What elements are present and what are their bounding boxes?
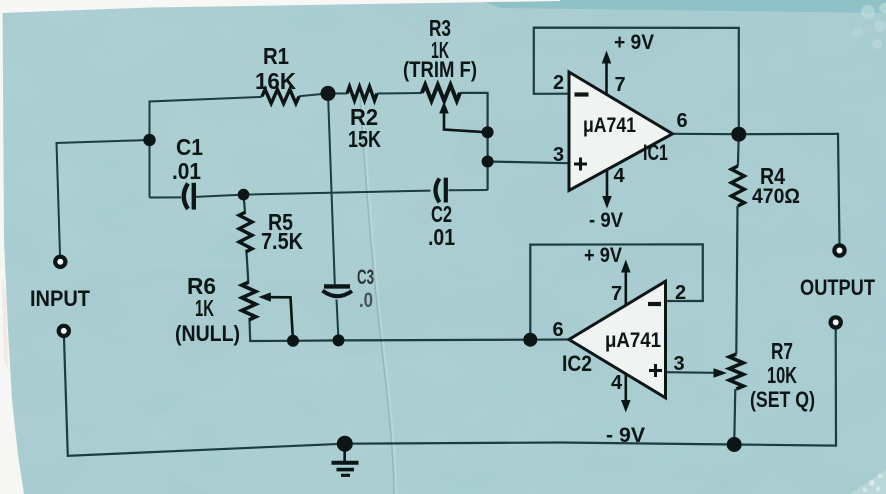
svg-text:(NULL): (NULL) (175, 321, 240, 346)
IC1 plus sign (574, 158, 587, 171)
IC2 -9V supply arrow pin 4 (624, 374, 627, 401)
node junction IC1 output (731, 127, 746, 142)
pink tinge left edge (2, 275, 8, 370)
wire: R3 right corner down to C2 (460, 93, 488, 190)
R3 wiper arrow (444, 111, 488, 132)
node junction R1-R2 (321, 86, 336, 101)
R7 wiper arrow from IC2 pin3 (714, 368, 728, 378)
node junction IC2 feedback (523, 333, 537, 347)
svg-text:.01: .01 (172, 158, 201, 184)
op-amp U2 IC2 triangle (569, 281, 666, 398)
wire: R5 R6 chain vertical (244, 195, 246, 212)
wire: input stub from node A (57, 140, 150, 255)
top right corner streaks (853, 3, 886, 49)
svg-text:4: 4 (614, 165, 626, 187)
svg-text:- 9V: - 9V (589, 209, 623, 232)
darker band top right (480, 0, 886, 13)
wire: C1 row (150, 196, 182, 198)
potentiometer R7 (729, 354, 743, 389)
capacitor C1 (184, 184, 188, 210)
bottom right white corner (850, 470, 886, 494)
svg-text:1K: 1K (195, 295, 214, 321)
node junction input-C1 (143, 134, 155, 146)
wire: R4-R7 vertical chain (737, 134, 740, 166)
resistor R1 (262, 89, 299, 103)
output terminal upper (834, 245, 844, 255)
svg-text:R1: R1 (263, 43, 289, 69)
svg-text:C1: C1 (176, 134, 203, 160)
svg-text:.01: .01 (428, 224, 455, 250)
svg-text:2: 2 (675, 282, 686, 304)
wire: top left horizontal + left vertical (150, 97, 263, 198)
IC2 plus sign (649, 364, 662, 377)
output terminal lower (831, 317, 841, 327)
input terminal lower (59, 326, 69, 336)
svg-text:10K: 10K (767, 362, 797, 388)
node junction C3 bottom (333, 334, 345, 346)
resistor R2 (347, 87, 377, 101)
svg-text:(TRIM F): (TRIM F) (403, 57, 477, 82)
svg-text:15K: 15K (348, 126, 381, 152)
svg-text:R7: R7 (771, 338, 793, 364)
node junction R6 wiper (287, 335, 299, 347)
capacitor C2 (436, 179, 440, 203)
svg-text:16K: 16K (255, 68, 296, 94)
IC1 minus sign (575, 92, 589, 96)
IC2 minus sign (648, 302, 661, 306)
svg-text:- 9V: - 9V (606, 424, 645, 447)
node junction R3 wiper (482, 126, 494, 138)
wire: mid row to IC2 pin 6 (293, 340, 569, 341)
IC1 -9V supply arrow pin 4 (606, 170, 609, 198)
IC1 +9V supply arrow pin 7 (605, 62, 608, 96)
left white page edge (0, 0, 24, 494)
wire: input lower terminal to bottom rail (64, 329, 836, 455)
svg-text:3: 3 (674, 353, 685, 375)
node junction R7 bottom (727, 437, 742, 452)
svg-text:μA741: μA741 (605, 329, 661, 352)
svg-text:(SET Q): (SET Q) (750, 387, 815, 412)
svg-text:2: 2 (553, 72, 564, 94)
svg-text:3: 3 (553, 144, 564, 166)
capacitor C3 (324, 284, 350, 288)
svg-text:6: 6 (553, 319, 564, 341)
svg-text:.0: .0 (359, 289, 373, 312)
node junction C1-R5 (238, 189, 250, 201)
svg-text:IC2: IC2 (562, 351, 592, 376)
svg-text:7: 7 (615, 74, 626, 96)
wire: C3 branch vertical (328, 93, 335, 284)
potentiometer R3 (422, 85, 460, 101)
node junction pin3 IC1 (482, 156, 494, 168)
svg-text:μA741: μA741 (583, 114, 636, 137)
resistor R5 (239, 212, 252, 252)
wire: IC2 pin3 to R7 arrow stem (666, 371, 715, 374)
svg-text:4: 4 (611, 372, 623, 394)
op-amp U1 IC1 triangle (569, 72, 673, 191)
wire: IC1 output to R4 node and output terminal (673, 134, 840, 244)
svg-text:+ 9V: + 9V (584, 244, 622, 267)
svg-text:C3: C3 (357, 266, 374, 289)
wire: IC1 pin2 + feedback box (534, 28, 739, 135)
ground (332, 444, 359, 476)
wire: IC2 pin2 feedback box (530, 244, 703, 339)
resistor R4 (731, 166, 744, 206)
top white page edge (0, 0, 560, 13)
svg-text:7.5K: 7.5K (261, 228, 303, 254)
svg-text:6: 6 (677, 110, 688, 132)
node junction ground (337, 436, 353, 452)
potentiometer R6 (242, 282, 256, 320)
svg-text:OUTPUT: OUTPUT (800, 275, 875, 300)
svg-text:INPUT: INPUT (30, 286, 91, 311)
svg-text:470Ω: 470Ω (752, 185, 800, 208)
svg-text:IC1: IC1 (643, 140, 668, 165)
wire: IC1 pin3 input (488, 162, 569, 164)
input terminal upper (55, 257, 65, 267)
R6 wiper arrow (269, 297, 294, 341)
wire: R1 to R2 junction to R3 (299, 93, 347, 96)
svg-text:7: 7 (611, 283, 622, 305)
page crease (360, 95, 394, 494)
IC2 +9V supply arrow pin 7 (624, 271, 627, 305)
svg-text:+ 9V: + 9V (614, 31, 654, 54)
